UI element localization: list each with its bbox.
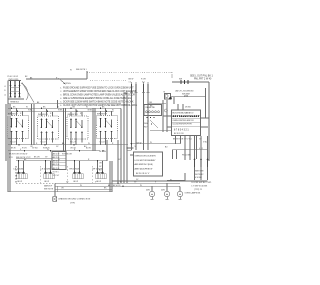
wire bottom left join bbox=[55, 183, 57, 196]
element under labels bbox=[18, 181, 102, 183]
svg-text:NOTE 5: NOTE 5 bbox=[53, 172, 59, 174]
notes left leader vertical bbox=[57, 100, 59, 108]
svg-text:R: R bbox=[50, 113, 52, 115]
svg-text:SEE NOTE 1: SEE NOTE 1 bbox=[76, 69, 87, 71]
svg-text:CHASSIS GROUND CONNECTION: CHASSIS GROUND CONNECTION bbox=[58, 198, 91, 201]
ground chassis bbox=[53, 197, 57, 202]
svg-text:RLY: RLY bbox=[144, 126, 148, 128]
svg-text:OR: OR bbox=[99, 163, 102, 165]
oven lamp DS3 bbox=[177, 186, 182, 199]
notes text block bbox=[60, 87, 137, 107]
connector P1 contacts bbox=[130, 82, 149, 92]
junction dots bottom bbox=[109, 183, 124, 190]
svg-text:BK W: BK W bbox=[11, 148, 16, 150]
svg-text:MAINTOP: MAINTOP bbox=[44, 184, 53, 187]
wire bus jog a bbox=[127, 149, 132, 151]
svg-text:PNL FRT 2 W 40: PNL FRT 2 W 40 bbox=[194, 78, 212, 80]
svg-text:4.: 4. bbox=[60, 98, 62, 100]
wire bus left pair bbox=[124, 93, 127, 183]
switch S5 ticks bbox=[179, 79, 188, 85]
svg-text:INF SW RF: INF SW RF bbox=[97, 114, 108, 116]
wire bottom 4 bbox=[8, 191, 112, 193]
surface element E4 (RF) bbox=[93, 162, 107, 179]
svg-text:DK BRN: DK BRN bbox=[99, 151, 106, 153]
junction circle bbox=[165, 109, 168, 112]
label oven lamp right top bbox=[190, 75, 214, 80]
svg-text:OVEN CONTROL ERC P4: OVEN CONTROL ERC P4 bbox=[173, 120, 195, 122]
wire relay to control bbox=[150, 129, 172, 131]
svg-text:AB CD E: AB CD E bbox=[53, 167, 61, 170]
wire step up bbox=[86, 71, 88, 79]
wire top right horizontal bbox=[172, 81, 209, 83]
junction sensor bbox=[126, 143, 132, 149]
wire vertical feeder b bbox=[106, 140, 108, 161]
svg-text:BK W OR: BK W OR bbox=[113, 185, 121, 187]
label under elements bbox=[44, 184, 54, 190]
wire TB to right (lower) bbox=[8, 103, 121, 105]
svg-text:DOOR SEE 1250W WIRE SWITCH BAK: DOOR SEE 1250W WIRE SWITCH BAKE NOTE COD… bbox=[63, 100, 134, 103]
svg-text:RELAY BD: RELAY BD bbox=[146, 106, 156, 109]
svg-text:BU W: BU W bbox=[86, 148, 91, 150]
svg-text:5.: 5. bbox=[60, 101, 62, 103]
wire motor line bbox=[171, 96, 206, 98]
switch chart table bbox=[52, 152, 66, 177]
right rail bbox=[208, 82, 210, 161]
right rail inner bbox=[206, 88, 210, 118]
surface element E3 (RR) bbox=[70, 162, 84, 179]
wire ERC left stubs bbox=[163, 116, 172, 127]
wire band above switches 2 bbox=[12, 110, 114, 112]
svg-text:BK W R OR GY BU W: BK W R OR GY BU W bbox=[9, 153, 28, 155]
label under ERC bbox=[173, 138, 192, 140]
label lamps bbox=[146, 189, 201, 194]
label band mid between bbox=[11, 148, 91, 150]
svg-text:40W: 40W bbox=[146, 189, 150, 191]
wire right bottom bends bbox=[167, 173, 185, 180]
switch terminal labels bbox=[11, 141, 107, 143]
wire bottom 3 bbox=[55, 188, 112, 190]
notes leader line bbox=[58, 78, 72, 85]
wire bus top stubs bbox=[123, 92, 127, 93]
label under sensor box bbox=[113, 185, 121, 187]
svg-text:6.: 6. bbox=[60, 105, 62, 107]
svg-text:NOTE 42: NOTE 42 bbox=[195, 174, 204, 176]
svg-text:R OR: R OR bbox=[22, 148, 27, 150]
svg-text:3.: 3. bbox=[60, 95, 62, 97]
svg-text:ASSY (DLB) P9 BK W: ASSY (DLB) P9 BK W bbox=[135, 168, 153, 171]
svg-text:BK W R OR: BK W R OR bbox=[174, 133, 184, 135]
wire inter-box vertical c bbox=[93, 108, 95, 151]
svg-text:BK W OR GY V: BK W OR GY V bbox=[136, 173, 150, 175]
svg-text:SEE NTE: SEE NTE bbox=[195, 171, 204, 173]
svg-text:BK W: BK W bbox=[129, 79, 134, 81]
wire band above switches 1 bbox=[8, 107, 121, 109]
svg-text:1 2: 1 2 bbox=[129, 82, 132, 84]
svg-text:GY: GY bbox=[56, 146, 59, 148]
svg-text:FUSE GROUND SURFACE FUSE 2350W: FUSE GROUND SURFACE FUSE 2350W TO LOCK O… bbox=[63, 87, 134, 90]
svg-text:8 7 6 5 4 3 2 1: 8 7 6 5 4 3 2 1 bbox=[174, 130, 189, 132]
connector P6 bank bbox=[182, 154, 208, 180]
relay box K1 bbox=[144, 105, 162, 116]
svg-text:AB CD E: AB CD E bbox=[53, 163, 61, 166]
maintop dashed separators bbox=[41, 166, 93, 183]
svg-text:GY BU: GY BU bbox=[32, 148, 38, 150]
svg-text:4 W BK: 4 W BK bbox=[195, 177, 202, 179]
svg-text:W: W bbox=[120, 182, 122, 184]
label bottom wires bbox=[66, 182, 122, 190]
wire dotted accessory line lower bbox=[90, 80, 127, 82]
svg-text:W R: W R bbox=[9, 157, 13, 159]
wire band mid 3 bbox=[8, 150, 100, 152]
svg-text:AB CD E: AB CD E bbox=[53, 152, 61, 155]
oven lamp DS1 bbox=[149, 186, 154, 199]
svg-text:SW: SW bbox=[179, 79, 182, 81]
surface switch S3 (RR) bbox=[67, 109, 88, 145]
label near step bbox=[76, 69, 87, 71]
oven sensor box bbox=[134, 152, 163, 176]
wire dotted accessory line upper bbox=[87, 71, 172, 73]
wire band mid 5 bbox=[16, 160, 107, 162]
label band mid row2 bbox=[9, 157, 48, 159]
svg-text:ELECTRONIC RANGE CT: ELECTRONIC RANGE CT bbox=[173, 112, 195, 115]
wire color labels sprinkled bbox=[20, 70, 172, 190]
wire N left rail outer bbox=[5, 104, 7, 161]
power cord lead bbox=[22, 83, 34, 103]
svg-text:LF 1250W: LF 1250W bbox=[14, 168, 25, 170]
wire band mid 1 bbox=[8, 144, 128, 146]
right bottom labels bbox=[192, 182, 213, 191]
svg-text:INF SW RR: INF SW RR bbox=[68, 114, 79, 116]
svg-text:W: W bbox=[80, 185, 82, 187]
wire right mid jog bbox=[173, 148, 208, 159]
wire sensor top bbox=[130, 143, 181, 145]
label band above switches bbox=[13, 106, 105, 115]
oven lamp DS2 bbox=[164, 183, 169, 199]
wire motor drop bbox=[173, 97, 175, 104]
svg-text:BK W: BK W bbox=[97, 181, 102, 183]
svg-text:W: W bbox=[70, 70, 72, 72]
svg-text:LATCH - SOLENOID: LATCH - SOLENOID bbox=[175, 89, 194, 92]
svg-text:INF SW LR: INF SW LR bbox=[38, 114, 48, 116]
svg-text:BK W: BK W bbox=[18, 181, 23, 183]
svg-text:INF SW LF: INF SW LF bbox=[8, 114, 18, 116]
svg-text:40W: 40W bbox=[161, 189, 165, 191]
svg-text:SW CHT: SW CHT bbox=[53, 175, 60, 177]
wire bottom 1 ext bbox=[112, 179, 208, 181]
label band above switches extra bbox=[28, 110, 114, 112]
terminal block TB1 bbox=[4, 81, 24, 104]
surface switch S4 (RF) bbox=[97, 109, 118, 145]
svg-text:BK: BK bbox=[25, 76, 28, 78]
svg-text:BK W: BK W bbox=[45, 181, 50, 183]
terminal block TB1 labels bbox=[8, 76, 29, 81]
clock ERC box bbox=[172, 110, 201, 136]
svg-text:R OR: R OR bbox=[141, 79, 146, 81]
svg-text:2.: 2. bbox=[60, 91, 62, 93]
svg-text:1.: 1. bbox=[60, 88, 62, 90]
surface element E2 (LR) bbox=[41, 162, 55, 179]
maintop dashed left bbox=[15, 166, 17, 183]
svg-text:R: R bbox=[20, 113, 22, 115]
svg-text:SEE NOTE: SEE NOTE bbox=[44, 189, 54, 191]
label under clock bbox=[199, 138, 208, 143]
surface switch S2 (LR) bbox=[38, 109, 59, 145]
svg-text:OVEN LAMPS BK: OVEN LAMPS BK bbox=[185, 192, 201, 195]
svg-text:BK W R OR GY V BU: BK W R OR GY V BU bbox=[173, 138, 192, 140]
svg-text:MTR: MTR bbox=[184, 96, 189, 98]
wire into relay box bbox=[148, 102, 166, 105]
element lead junction dots bbox=[18, 160, 103, 162]
wire inter-box vertical a bbox=[32, 104, 35, 145]
svg-text:LR 2350W: LR 2350W bbox=[41, 168, 52, 170]
wire clock right lead bbox=[201, 118, 209, 127]
junction dots band mid bbox=[18, 144, 104, 152]
wire bottom 2 bbox=[55, 185, 180, 187]
wire drop at right of dotted line bbox=[171, 72, 173, 78]
wire clock bottom leads bbox=[176, 136, 197, 149]
wire L1 left rail inner bbox=[9, 104, 11, 192]
junction dots band bbox=[11, 107, 108, 112]
svg-text:OVEN DOOR LOCK MTR: OVEN DOOR LOCK MTR bbox=[135, 156, 157, 158]
label latch bbox=[175, 89, 194, 95]
svg-text:DOOR SW BK 2 W1: DOOR SW BK 2 W1 bbox=[192, 182, 213, 184]
svg-text:AND SWITCH 2 (DLB): AND SWITCH 2 (DLB) bbox=[135, 163, 153, 166]
wire TB top feed bbox=[26, 78, 87, 80]
wire right verticals down bbox=[185, 136, 208, 161]
svg-text:BU: BU bbox=[165, 146, 168, 148]
svg-text:PL4 L1 N L2: PL4 L1 N L2 bbox=[8, 76, 19, 78]
svg-text:DK BU: DK BU bbox=[185, 107, 191, 109]
svg-text:LT SW W 40 BK: LT SW W 40 BK bbox=[192, 186, 208, 188]
svg-text:L1: L1 bbox=[4, 86, 6, 88]
svg-text:P6 CONN: P6 CONN bbox=[182, 154, 191, 156]
wire clock top leads bbox=[178, 104, 191, 110]
maintop dashed line bbox=[16, 182, 110, 184]
svg-text:ARE L2 1250W BAKE ELEMENT BROI: ARE L2 1250W BAKE ELEMENT BROIL CONN ALL… bbox=[63, 97, 132, 100]
wire into sensor box bbox=[127, 143, 142, 155]
svg-text:W: W bbox=[112, 110, 114, 112]
motor M1 bbox=[164, 92, 172, 100]
svg-text:NOTES:: NOTES: bbox=[63, 83, 72, 85]
svg-text:N: N bbox=[4, 90, 6, 92]
label motor line bbox=[184, 96, 189, 98]
connector P1 labels bbox=[129, 79, 147, 84]
label left of bus bbox=[99, 151, 106, 175]
svg-text:CLOCK P3 P4 P5 P7 P8: CLOCK P3 P4 P5 P7 P8 bbox=[173, 123, 193, 125]
relay lower contacts bbox=[144, 117, 158, 129]
svg-text:(TYP): (TYP) bbox=[70, 202, 75, 204]
wire L1 left rail bbox=[7, 81, 9, 192]
right bottom note text bbox=[195, 171, 204, 180]
svg-text:(TYP) 21: (TYP) 21 bbox=[194, 189, 203, 191]
wire bus mid pair bbox=[118, 109, 121, 184]
power cord strain relief bbox=[21, 83, 28, 100]
surface switch S1 (LF) bbox=[8, 109, 29, 145]
wire relay verticals bbox=[163, 100, 167, 132]
wire bus bend label bbox=[150, 106, 153, 108]
wire band mid 4 bbox=[16, 158, 52, 160]
wire bus from P1 down bbox=[132, 92, 149, 150]
svg-text:LOCK MOTOR SW ASSY: LOCK MOTOR SW ASSY bbox=[135, 159, 157, 162]
svg-text:SEE L OUT PNL BK 1: SEE L OUT PNL BK 1 bbox=[190, 75, 214, 77]
svg-text:L2: L2 bbox=[4, 94, 6, 96]
surface element E1 (LF) bbox=[14, 162, 28, 179]
wire bottom 1 bbox=[55, 182, 180, 184]
label band mid row1 bbox=[9, 153, 73, 155]
svg-text:BK W: BK W bbox=[74, 181, 79, 183]
svg-text:TERM BLK: TERM BLK bbox=[10, 102, 20, 104]
svg-text:BROIL CONN OVEN LAMP NOTED LAM: BROIL CONN OVEN LAMP NOTED LAMP OVEN UNL… bbox=[63, 94, 135, 97]
wire inter-box vertical b bbox=[64, 108, 66, 151]
ground label bbox=[58, 198, 91, 205]
wire vertical feeder a bbox=[110, 161, 112, 192]
